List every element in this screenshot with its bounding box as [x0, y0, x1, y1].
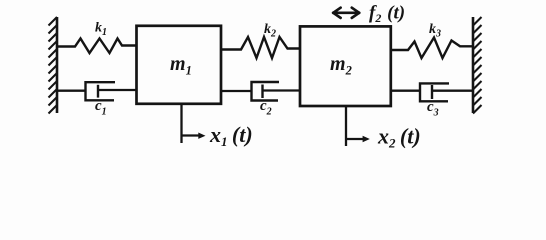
svg-text:x1 (t): x1 (t) — [209, 122, 253, 149]
svg-text:k3: k3 — [429, 22, 441, 40]
svg-text:x2 (t): x2 (t) — [377, 124, 421, 151]
svg-text:k1: k1 — [95, 21, 107, 39]
svg-text:m2: m2 — [330, 53, 352, 78]
svg-text:f2 (t): f2 (t) — [369, 3, 405, 26]
svg-text:k2: k2 — [264, 22, 276, 40]
svg-text:m1: m1 — [170, 53, 192, 78]
